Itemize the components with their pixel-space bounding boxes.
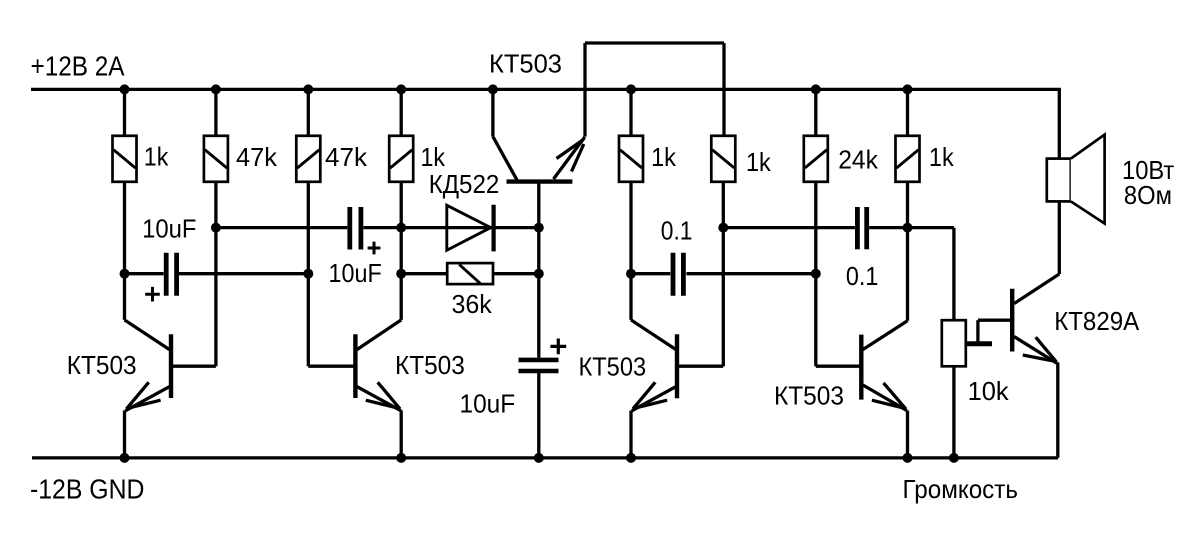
svg-text:24k: 24k [838, 144, 879, 174]
svg-text:КТ503: КТ503 [489, 49, 562, 79]
svg-text:КТ503: КТ503 [67, 350, 137, 380]
svg-text:10uF: 10uF [142, 214, 196, 244]
svg-text:1k: 1k [651, 142, 677, 172]
svg-text:КД522: КД522 [429, 169, 500, 199]
svg-text:+12В 2А: +12В 2А [31, 51, 125, 82]
svg-text:0.1: 0.1 [846, 261, 879, 291]
svg-text:КТ829А: КТ829А [1054, 306, 1140, 336]
svg-text:47k: 47k [325, 142, 368, 172]
svg-text:1k: 1k [144, 141, 169, 171]
svg-text:КТ503: КТ503 [395, 350, 465, 380]
svg-text:1k: 1k [746, 147, 772, 177]
svg-text:КТ503: КТ503 [579, 352, 647, 382]
svg-text:10uF: 10uF [460, 389, 516, 419]
svg-text:1k: 1k [929, 142, 955, 172]
svg-text:47k: 47k [236, 142, 278, 172]
svg-text:36k: 36k [452, 289, 493, 319]
svg-text:КТ503: КТ503 [774, 381, 844, 411]
svg-text:0.1: 0.1 [661, 215, 693, 245]
svg-text:8Ом: 8Ом [1124, 180, 1172, 210]
svg-text:Громкость: Громкость [903, 474, 1019, 504]
svg-text:-12В GND: -12В GND [30, 474, 144, 505]
svg-text:1k: 1k [421, 142, 446, 172]
svg-text:10k: 10k [968, 376, 1010, 406]
svg-text:10uF: 10uF [329, 258, 382, 288]
